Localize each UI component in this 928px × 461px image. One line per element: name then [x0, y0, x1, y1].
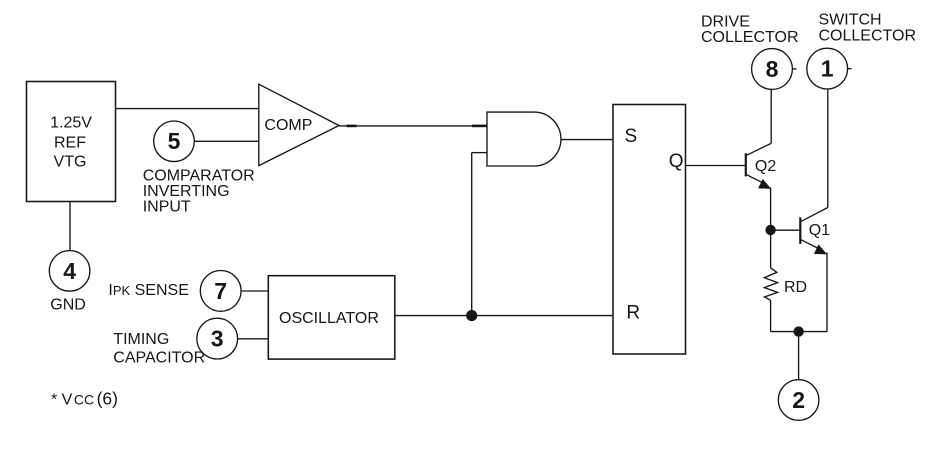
pin 1 number [821, 56, 834, 82]
pin 7 circle [200, 271, 241, 312]
label: Q1 [809, 222, 830, 239]
pin 8 number [766, 56, 779, 82]
pin 3 number [211, 326, 224, 352]
wire: AND gate lower input stub [472, 152, 487, 154]
pin 5 number [168, 128, 181, 154]
wire: reference to pin 4 [69, 202, 71, 251]
svg-text:RD: RD [784, 279, 807, 296]
wire: pin 7 to oscillator [241, 290, 268, 292]
svg-text:4: 4 [63, 258, 76, 284]
label: Q output [669, 151, 684, 172]
label: Q2 [755, 158, 776, 175]
transistor Q1 [800, 208, 828, 255]
label: RD [784, 279, 807, 296]
label: R input [626, 302, 640, 323]
pin 1 right stub [848, 68, 852, 70]
wire: Q1 emitter down to bottom rail [826, 253, 828, 332]
block U5: oscillator [268, 276, 395, 359]
svg-text:IPK SENSE: IPK SENSE [108, 282, 188, 299]
block U4: SR latch [613, 105, 686, 355]
pin 4 circle [49, 251, 90, 292]
pin 2 circle [778, 380, 819, 421]
svg-text:Q1: Q1 [809, 222, 830, 239]
svg-text:COMP: COMP [264, 117, 312, 134]
label: TIMING CAPACITOR [113, 331, 205, 366]
svg-text:8: 8 [766, 56, 779, 82]
wire: resistor RD to bottom rail [770, 300, 772, 331]
wire: junction to Q1 base [771, 229, 800, 231]
pin 8 right stub [792, 68, 796, 70]
svg-text:Q: Q [669, 151, 684, 172]
svg-text:5: 5 [168, 128, 181, 154]
pin 7 number [214, 278, 227, 304]
label: Ipk SENSE [108, 282, 188, 299]
pin 8 circle [752, 49, 793, 90]
wire: junction to pin 2 [798, 332, 800, 380]
label: GND [50, 297, 86, 314]
pin 1 circle [807, 48, 848, 89]
wire: Q2 collector to pin 8 [770, 89, 772, 143]
svg-text:COMPARATOR: COMPARATOR [143, 167, 255, 184]
op-amp U1: comparator COMP [259, 84, 339, 165]
pin 4 number [63, 258, 76, 284]
transistor Q2 [746, 143, 772, 189]
note: Vcc is pin 6 [51, 388, 118, 408]
wire: Q1 collector to pin 1 [827, 89, 829, 208]
pin 5 circle [154, 121, 195, 162]
wire: comparator output to AND gate top input [339, 125, 487, 127]
svg-text:TIMING: TIMING [113, 331, 169, 348]
svg-text:7: 7 [214, 278, 227, 304]
label: DRIVE COLLECTOR [701, 14, 799, 46]
svg-text:1.25V: 1.25V [50, 115, 92, 132]
svg-text:INVERTING: INVERTING [143, 183, 230, 200]
wire: pin 3 to oscillator [238, 338, 269, 340]
resistor RD [764, 268, 777, 300]
label: 1.25V REF VTG [50, 115, 92, 171]
svg-text:COLLECTOR: COLLECTOR [819, 27, 917, 44]
svg-text:2: 2 [792, 387, 805, 413]
wire: Q2 emitter down to junction [770, 188, 772, 231]
svg-text:REF: REF [54, 135, 86, 152]
svg-text:3: 3 [211, 326, 224, 352]
svg-text:SWITCH: SWITCH [819, 12, 882, 29]
wire: bottom rail [771, 331, 827, 333]
wire: vertical from AND gate lower input down to oscillator output [471, 153, 473, 316]
node: junction of oscillator output and AND gate input [466, 310, 477, 321]
svg-text:S: S [625, 126, 638, 147]
wire: AND gate output to latch S input [561, 139, 613, 141]
wire: junction to resistor RD [770, 230, 772, 268]
AND gate U2 [487, 112, 561, 166]
label: S input [625, 126, 638, 147]
svg-text:OSCILLATOR: OSCILLATOR [279, 310, 379, 327]
block U3: 1.25V reference regulator [27, 82, 116, 202]
svg-text:R: R [626, 302, 640, 323]
pin 2 number [792, 387, 805, 413]
label: SWITCH COLLECTOR [819, 12, 917, 45]
svg-text:* VCC(6): * VCC(6) [51, 388, 118, 408]
svg-text:Q2: Q2 [755, 158, 776, 175]
node: junction of Q2 emitter, RD and Q1 base [765, 225, 775, 235]
wire: pin 5 to comparator inverting input [194, 140, 258, 142]
svg-text:VTG: VTG [54, 153, 87, 170]
label: OSCILLATOR [279, 310, 379, 327]
node: junction on bottom rail to pin 2 [793, 326, 803, 336]
svg-text:CAPACITOR: CAPACITOR [113, 349, 205, 366]
wire: oscillator output to latch R input [395, 315, 613, 317]
svg-text:COLLECTOR: COLLECTOR [701, 29, 799, 46]
svg-text:INPUT: INPUT [143, 198, 191, 215]
label: COMP [264, 117, 312, 134]
svg-text:GND: GND [50, 297, 86, 314]
wire: reference output to comparator non-inverting input [116, 108, 259, 110]
wire: latch Q output to Q2 base [686, 165, 745, 167]
pin 3 circle [197, 318, 238, 359]
svg-text:1: 1 [821, 56, 834, 82]
label: COMPARATOR INVERTING INPUT [143, 167, 255, 215]
